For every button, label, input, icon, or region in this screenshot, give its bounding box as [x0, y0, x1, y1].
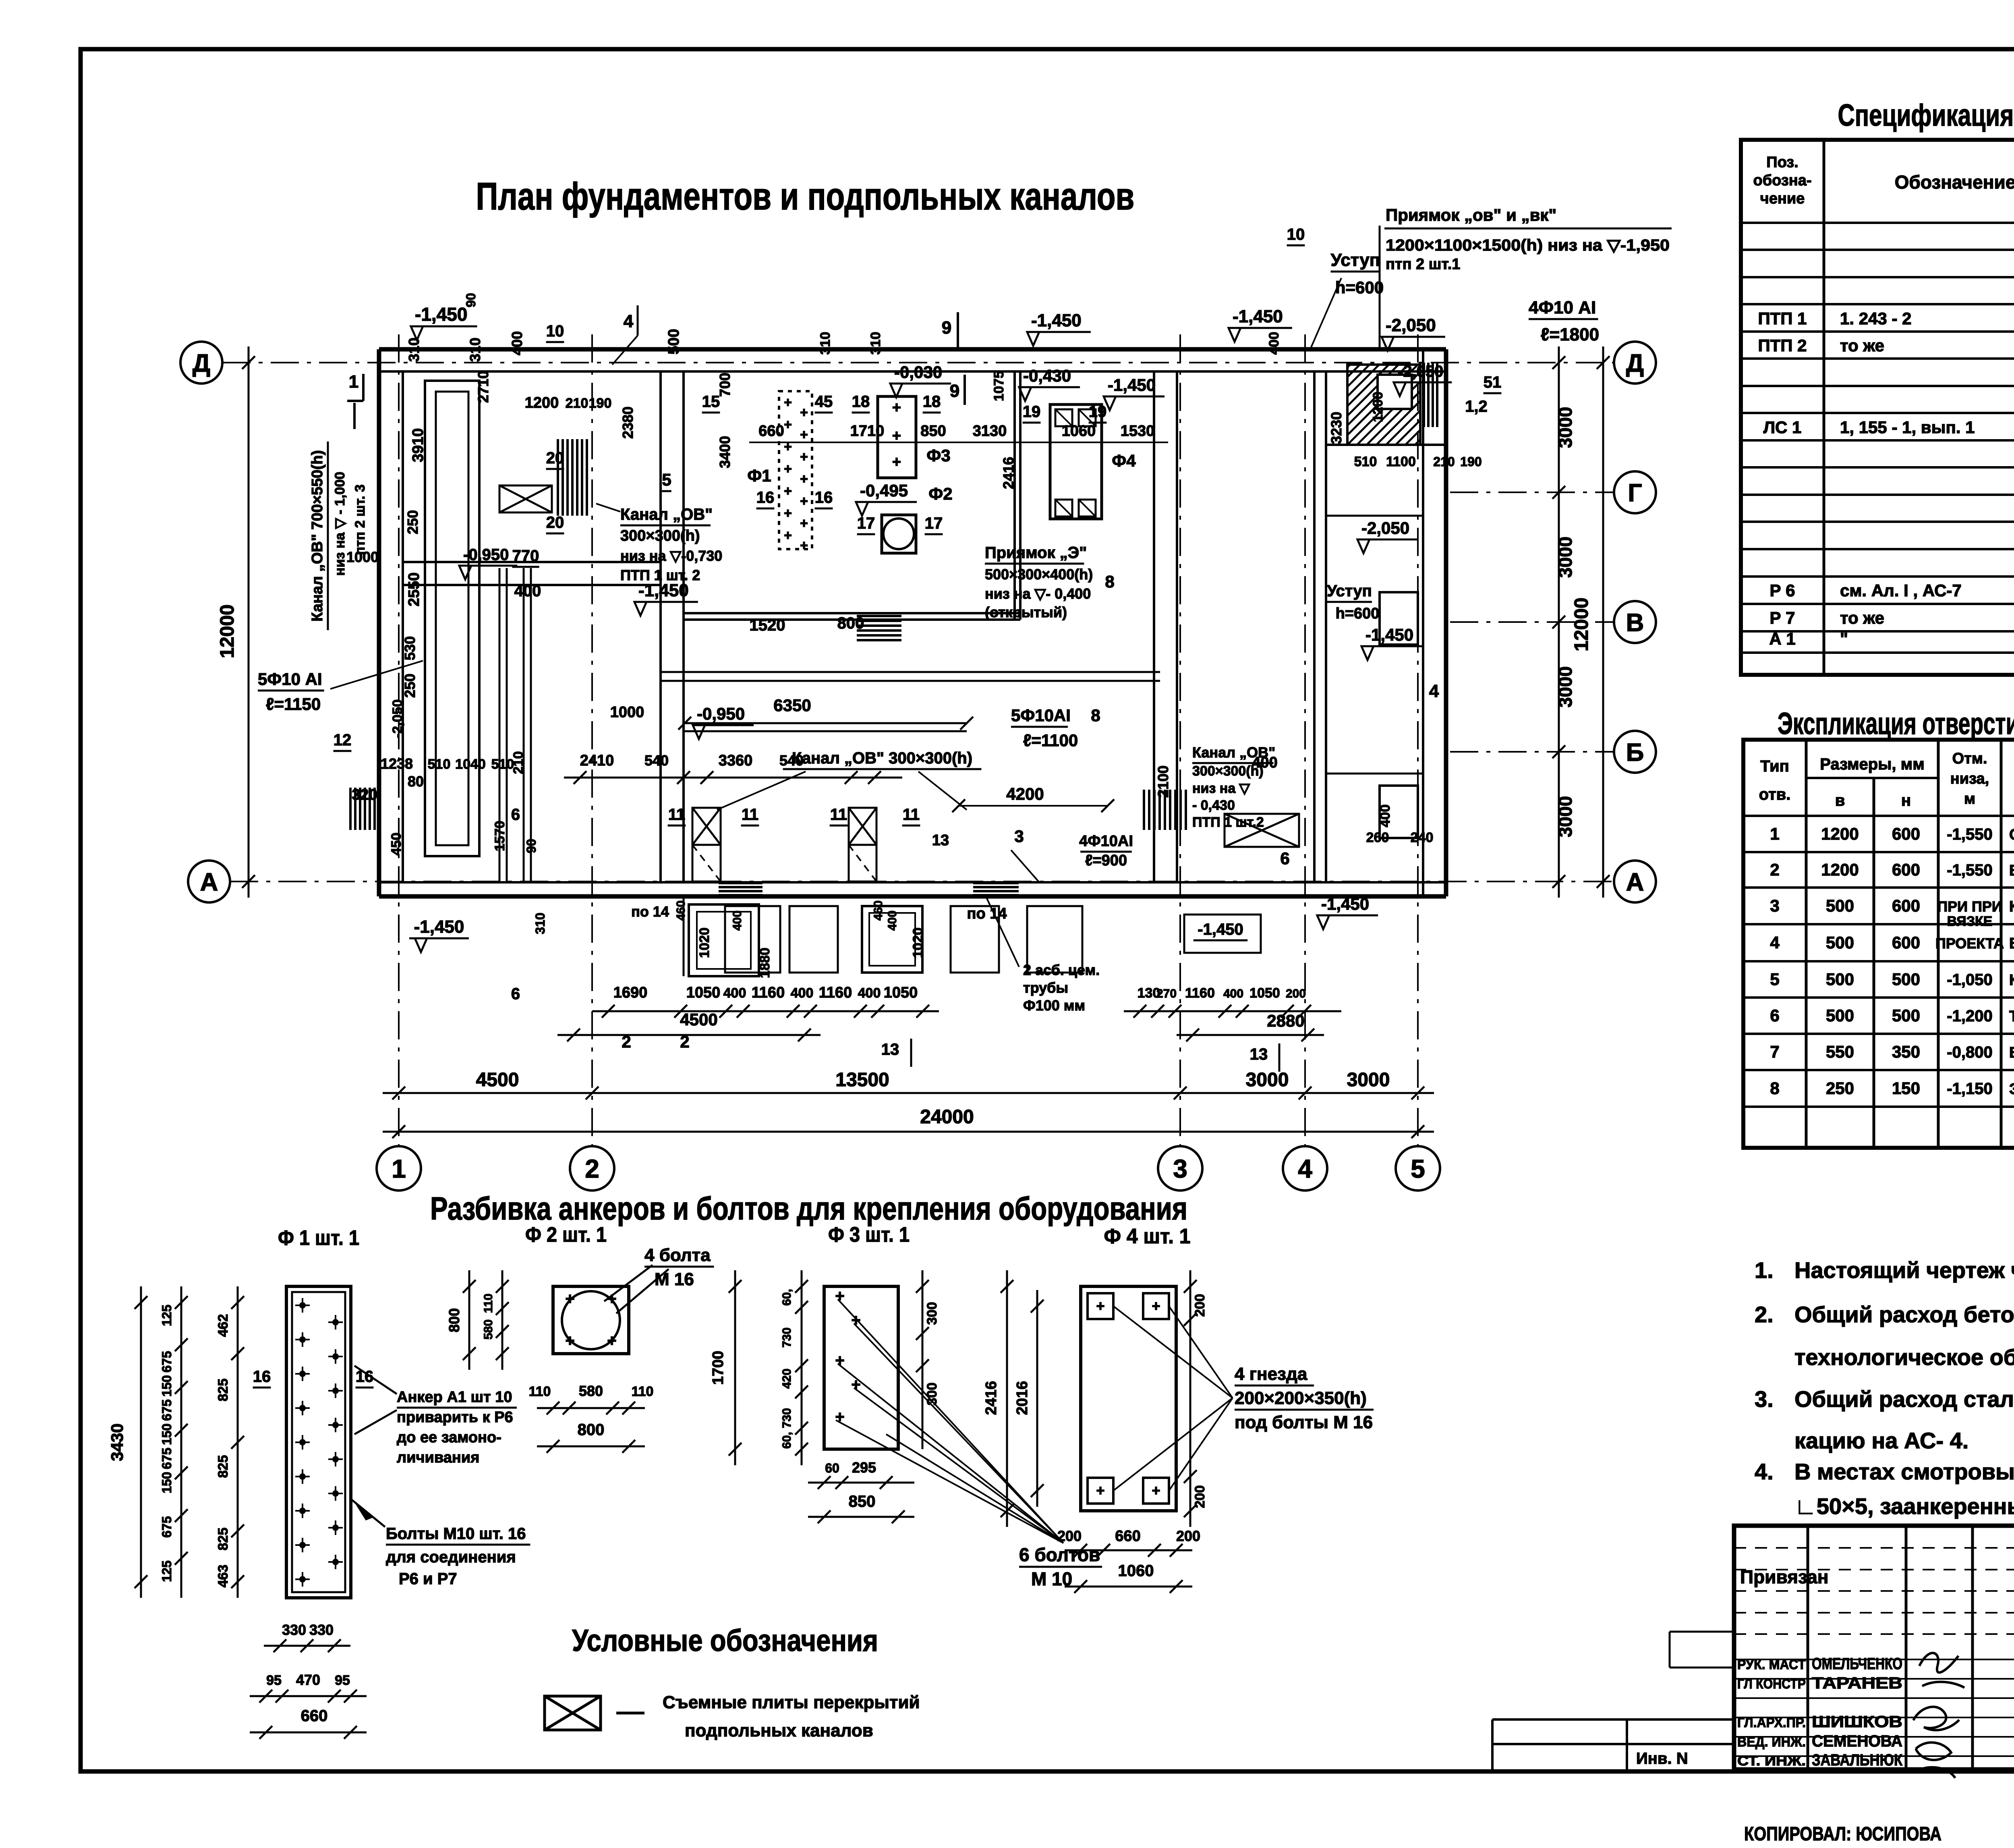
svg-text:КАНАЛИЗАЦИЯ: КАНАЛИЗАЦИЯ [2009, 898, 2014, 915]
svg-text:250: 250 [404, 510, 421, 534]
svg-text:+: + [800, 471, 808, 487]
svg-text:330: 330 [282, 1622, 306, 1638]
svg-text:2550: 2550 [406, 572, 423, 607]
svg-text:ВОДОПРОВОД /ГОР./: ВОДОПРОВОД /ГОР./ [2009, 862, 2014, 879]
svg-text:ШИШКОВ: ШИШКОВ [1812, 1713, 1902, 1731]
svg-text:400: 400 [731, 911, 744, 931]
svg-text:под болты М 16: под болты М 16 [1235, 1412, 1373, 1432]
svg-text:3430: 3430 [108, 1423, 126, 1461]
svg-text:4Ф10АI: 4Ф10АI [1079, 833, 1133, 850]
svg-text:730: 730 [780, 1408, 794, 1428]
svg-text:60: 60 [825, 1461, 839, 1475]
svg-text:125: 125 [160, 1305, 174, 1326]
svg-text:ГЛ КОНСТР: ГЛ КОНСТР [1737, 1676, 1806, 1692]
svg-text:13500: 13500 [835, 1069, 889, 1091]
svg-text:540: 540 [779, 752, 804, 769]
svg-text:+: + [607, 1332, 616, 1350]
svg-text:Приямок „Э": Приямок „Э" [985, 544, 1087, 562]
svg-text:1000: 1000 [610, 704, 644, 721]
svg-text:-0,495: -0,495 [860, 481, 908, 500]
svg-text:+: + [565, 1290, 574, 1308]
svg-text:1060: 1060 [1062, 423, 1096, 440]
svg-text:4.: 4. [1755, 1459, 1774, 1484]
svg-text:3000: 3000 [1246, 1069, 1289, 1091]
svg-text:600: 600 [1892, 896, 1920, 915]
svg-text:9: 9 [942, 318, 951, 338]
svg-text:6 болтов: 6 болтов [1019, 1544, 1100, 1565]
svg-text:4500: 4500 [476, 1069, 519, 1091]
svg-text:низ на ▽-0,730: низ на ▽-0,730 [620, 548, 722, 564]
svg-text:3000: 3000 [1555, 407, 1576, 448]
svg-text:3000: 3000 [1555, 666, 1576, 707]
svg-text:17: 17 [857, 514, 875, 532]
svg-text:Привязан: Привязан [1740, 1566, 1829, 1587]
svg-text:210: 210 [566, 396, 588, 411]
svg-text:+: + [800, 538, 808, 553]
svg-text:4: 4 [1429, 681, 1439, 701]
svg-text:250: 250 [402, 674, 418, 698]
svg-text:462: 462 [215, 1314, 231, 1337]
svg-text:2100: 2100 [1155, 765, 1171, 798]
svg-text:6: 6 [511, 806, 520, 823]
svg-text:-1,450: -1,450 [1321, 894, 1369, 913]
svg-text:310: 310 [467, 338, 483, 362]
svg-text:1050: 1050 [884, 984, 918, 1001]
svg-text:Ф2: Ф2 [928, 484, 952, 503]
svg-text:ПТП 2: ПТП 2 [1758, 336, 1807, 355]
svg-text:200: 200 [1192, 1485, 1208, 1508]
svg-text:300: 300 [924, 1383, 940, 1406]
svg-text:Ф4: Ф4 [1112, 451, 1136, 470]
svg-text:3400: 3400 [717, 436, 733, 468]
svg-text:+: + [565, 1332, 574, 1350]
svg-text:+: + [800, 449, 808, 465]
svg-text:- 0,430: - 0,430 [1192, 798, 1235, 813]
svg-text:-2,050: -2,050 [1361, 519, 1409, 537]
svg-text:20: 20 [546, 514, 564, 531]
svg-text:450: 450 [389, 833, 404, 856]
svg-text:470: 470 [296, 1672, 320, 1688]
svg-text:+: + [784, 461, 792, 477]
svg-text:400: 400 [1378, 805, 1393, 828]
svg-text:ПРОЕКТА: ПРОЕКТА [1935, 935, 2004, 952]
svg-text:Ф3: Ф3 [926, 446, 950, 465]
svg-text:1060: 1060 [1118, 1562, 1154, 1580]
svg-text:12000: 12000 [217, 604, 238, 658]
svg-text:580: 580 [482, 1319, 495, 1340]
svg-text:530: 530 [402, 636, 418, 660]
svg-text:1200: 1200 [1821, 860, 1859, 879]
svg-text:580: 580 [579, 1383, 603, 1399]
svg-text:16: 16 [253, 1368, 271, 1385]
svg-text:1. 243 - 2: 1. 243 - 2 [1840, 309, 1911, 328]
svg-text:825: 825 [215, 1528, 231, 1551]
svg-text:1160: 1160 [752, 984, 785, 1001]
svg-text:95: 95 [266, 1673, 282, 1688]
svg-text:обозна-: обозна- [1753, 172, 1811, 189]
svg-text:150: 150 [160, 1375, 174, 1396]
svg-text:Тип: Тип [1760, 757, 1789, 775]
svg-text:2: 2 [680, 1032, 689, 1051]
svg-text:М 16: М 16 [655, 1269, 694, 1289]
svg-text:ℓ=1800: ℓ=1800 [1541, 325, 1599, 344]
svg-text:3230: 3230 [1328, 412, 1345, 444]
svg-text:1.: 1. [1755, 1257, 1774, 1283]
svg-text:+: + [1096, 1298, 1104, 1314]
svg-text:ПТП 1: ПТП 1 [1758, 309, 1807, 328]
svg-text:3000: 3000 [1555, 537, 1576, 578]
svg-text:+: + [784, 417, 792, 432]
svg-text:3000: 3000 [1555, 796, 1576, 837]
svg-text:150: 150 [1892, 1079, 1920, 1098]
svg-text:ТО ЖЕ: ТО ЖЕ [2009, 1008, 2014, 1025]
svg-text:+: + [784, 483, 792, 499]
svg-text:ВЕНТИЛЯЦИЯ: ВЕНТИЛЯЦИЯ [2009, 1044, 2014, 1061]
svg-text:+: + [1152, 1482, 1160, 1499]
svg-text:800: 800 [837, 614, 864, 632]
svg-text:2: 2 [1770, 860, 1779, 879]
svg-text:Разбивка анкеров и болтов: Разбивка анкеров и болтов для крепления … [430, 1191, 1187, 1226]
svg-text:125: 125 [160, 1560, 174, 1582]
svg-text:Настоящий чертеж читать со: Настоящий чертеж читать совместно с АС-4… [1794, 1257, 2014, 1283]
svg-text:Р 6: Р 6 [1770, 581, 1795, 600]
svg-text:-1,450: -1,450 [638, 581, 689, 600]
svg-text:КОПИРОВАЛ: ЮСИПОВА: КОПИРОВАЛ: ЮСИПОВА [1744, 1823, 1941, 1845]
svg-text:3360: 3360 [719, 752, 753, 769]
svg-text:А: А [1626, 868, 1644, 896]
svg-text:240: 240 [1411, 830, 1434, 845]
svg-text:400: 400 [858, 985, 881, 1001]
svg-text:-1,450: -1,450 [1365, 625, 1413, 644]
svg-text:11: 11 [903, 806, 920, 823]
svg-text:190: 190 [589, 396, 612, 411]
svg-text:В местах смотровых люков с: В местах смотровых люков съемные плиты у… [1794, 1459, 2014, 1484]
svg-text:90: 90 [464, 293, 478, 307]
svg-text:51: 51 [1484, 373, 1502, 391]
svg-text:Канал „ОВ": Канал „ОВ" [620, 506, 713, 523]
svg-text:1050: 1050 [686, 984, 721, 1001]
svg-text:150: 150 [160, 1472, 174, 1493]
svg-text:в: в [1835, 792, 1845, 809]
svg-text:200: 200 [1057, 1528, 1082, 1544]
svg-text:2410: 2410 [580, 752, 614, 769]
svg-text:9: 9 [950, 381, 959, 401]
svg-text:660: 660 [301, 1707, 328, 1725]
svg-text:500: 500 [1892, 1006, 1920, 1025]
svg-text:ВЕД. ИНЖ.: ВЕД. ИНЖ. [1737, 1734, 1806, 1750]
svg-text:2416: 2416 [983, 1381, 1000, 1415]
svg-text:1520: 1520 [750, 616, 785, 634]
svg-text:200: 200 [1176, 1528, 1200, 1544]
svg-text:850: 850 [920, 423, 946, 440]
svg-text:1: 1 [392, 1154, 406, 1183]
svg-text:Р6 и Р7: Р6 и Р7 [399, 1570, 457, 1588]
svg-text:500: 500 [1826, 933, 1854, 952]
svg-text:Канал „ОВ" 300×300(h): Канал „ОВ" 300×300(h) [792, 749, 972, 767]
svg-text:-1,200: -1,200 [1947, 1007, 1992, 1025]
svg-text:4 болта: 4 болта [644, 1245, 711, 1265]
svg-text:420: 420 [780, 1369, 794, 1389]
svg-text:210: 210 [511, 751, 526, 774]
svg-text:600: 600 [1892, 824, 1920, 843]
svg-text:5Ф10 АI: 5Ф10 АI [258, 670, 322, 689]
svg-text:КАНАЛИЗАЦИЯ: КАНАЛИЗАЦИЯ [2009, 972, 2014, 989]
svg-text:-1,450: -1,450 [415, 304, 467, 325]
svg-text:Поз.: Поз. [1766, 154, 1798, 171]
svg-text:Ф 2 шт. 1: Ф 2 шт. 1 [525, 1223, 607, 1247]
svg-text:11: 11 [668, 806, 685, 823]
svg-text:-2,050: -2,050 [1398, 363, 1443, 380]
svg-text:1530: 1530 [1121, 423, 1155, 440]
svg-text:Р 7: Р 7 [1770, 608, 1795, 627]
svg-text:СТ. ИНЖ.: СТ. ИНЖ. [1737, 1753, 1806, 1769]
svg-text:80: 80 [408, 773, 424, 790]
svg-text:300: 300 [924, 1302, 940, 1325]
svg-text:Условные обозначения: Условные обозначения [572, 1624, 878, 1658]
svg-text:13: 13 [881, 1041, 899, 1058]
svg-text:18: 18 [852, 393, 870, 411]
svg-text:Анкер А1 шт 10: Анкер А1 шт 10 [397, 1389, 512, 1406]
svg-text:12000: 12000 [1571, 597, 1592, 651]
svg-text:4500: 4500 [680, 1010, 717, 1029]
svg-text:200: 200 [1192, 1294, 1208, 1317]
svg-text:низ на ▽ - 1,000: низ на ▽ - 1,000 [332, 472, 348, 576]
svg-text:до ее замоно-: до ее замоно- [397, 1429, 501, 1446]
svg-text:310: 310 [818, 332, 833, 355]
svg-text:1570: 1570 [492, 821, 508, 851]
svg-text:Инв. N: Инв. N [1636, 1750, 1688, 1767]
svg-text:500: 500 [1826, 970, 1854, 989]
svg-text:700: 700 [717, 373, 733, 397]
svg-text:825: 825 [215, 1455, 231, 1478]
svg-text:17: 17 [925, 514, 943, 532]
svg-text:-0,950: -0,950 [697, 704, 745, 723]
svg-text:60,: 60, [780, 1432, 794, 1449]
svg-text:В: В [1626, 609, 1644, 637]
svg-text:400: 400 [723, 985, 746, 1001]
svg-text:по 14: по 14 [631, 903, 669, 920]
svg-text:19: 19 [1089, 403, 1107, 421]
svg-text:РУК. МАСТ: РУК. МАСТ [1737, 1657, 1806, 1672]
svg-text:2880: 2880 [1267, 1011, 1304, 1030]
svg-text:СЕМЕНОВА: СЕМЕНОВА [1812, 1732, 1902, 1750]
svg-text:500: 500 [1892, 970, 1920, 989]
svg-text:5Ф10АI: 5Ф10АI [1011, 706, 1071, 725]
svg-text:+: + [835, 1352, 844, 1369]
svg-text:13: 13 [1250, 1045, 1268, 1063]
svg-text:1200×1100×1500(h) низ на ▽-1,: 1200×1100×1500(h) низ на ▽-1,950 [1386, 236, 1670, 254]
svg-text:-1,550: -1,550 [1947, 825, 1992, 843]
svg-text:1238: 1238 [381, 755, 413, 772]
svg-text:технологическое оборудование: технологическое оборудование Ф1 ÷ Ф4 — 2… [1794, 1344, 2014, 1370]
svg-text:3: 3 [1173, 1154, 1187, 1183]
svg-text:ЛС 1: ЛС 1 [1763, 418, 1802, 437]
svg-text:300×300(h): 300×300(h) [620, 527, 700, 544]
svg-text:птп 2 шт. 3: птп 2 шт. 3 [352, 484, 368, 555]
svg-text:Уступ: Уступ [1331, 250, 1380, 270]
svg-text:400: 400 [514, 582, 541, 600]
svg-text:110: 110 [632, 1384, 654, 1399]
svg-text:трубы: трубы [1023, 979, 1068, 996]
svg-text:2380: 2380 [620, 407, 636, 439]
svg-text:13: 13 [932, 832, 949, 849]
svg-text:А 1: А 1 [1769, 629, 1795, 648]
svg-text:770: 770 [512, 547, 539, 565]
svg-text:500: 500 [1826, 896, 1854, 915]
svg-text:+: + [784, 528, 792, 543]
svg-text:-0,950: -0,950 [463, 546, 509, 564]
svg-text:Экспликация отверстий: Экспликация отверстий [1778, 707, 2014, 741]
svg-text:+: + [800, 405, 808, 420]
svg-text:Общий расход стали на ли: Общий расход стали на лист см. сводную с… [1794, 1386, 2014, 1412]
svg-text:3910: 3910 [410, 428, 427, 463]
svg-text:510: 510 [1354, 454, 1377, 469]
svg-text:Спецификация здания ниже от: Спецификация здания ниже отм. 0,000 [1838, 98, 2014, 133]
svg-text:низ на ▽: низ на ▽ [1192, 781, 1250, 796]
svg-text:1200: 1200 [1821, 824, 1859, 843]
svg-text:11: 11 [830, 806, 847, 823]
svg-text:675: 675 [160, 1399, 174, 1421]
svg-text:1200: 1200 [1370, 392, 1386, 422]
svg-text:110: 110 [482, 1294, 495, 1313]
svg-text:600: 600 [1892, 933, 1920, 952]
svg-text:Приямок „ов" и „вк": Приямок „ов" и „вк" [1386, 205, 1556, 224]
svg-text:+: + [1152, 1298, 1160, 1314]
svg-text:А: А [200, 868, 218, 896]
svg-text:10: 10 [1287, 226, 1305, 243]
svg-text:2 асб. цем.: 2 асб. цем. [1023, 962, 1100, 978]
svg-text:-0,430: -0,430 [1023, 366, 1071, 385]
svg-text:": " [1840, 629, 1848, 648]
svg-text:6350: 6350 [773, 696, 811, 715]
svg-text:825: 825 [215, 1379, 231, 1402]
svg-text:800: 800 [578, 1421, 605, 1439]
svg-text:h=600: h=600 [1335, 278, 1384, 297]
svg-text:1050: 1050 [1249, 985, 1280, 1001]
svg-text:Ф 3 шт. 1: Ф 3 шт. 1 [828, 1223, 910, 1247]
svg-text:295: 295 [852, 1459, 876, 1476]
svg-text:4: 4 [624, 311, 634, 331]
svg-text:3000: 3000 [1347, 1069, 1390, 1091]
svg-text:Ф 1 шт. 1: Ф 1 шт. 1 [278, 1226, 359, 1250]
svg-text:400: 400 [1266, 332, 1282, 355]
svg-text:-0,030: -0,030 [894, 363, 942, 382]
svg-text:10: 10 [546, 322, 564, 340]
svg-text:по 14: по 14 [967, 905, 1007, 922]
svg-text:400: 400 [1252, 754, 1277, 771]
svg-text:1040: 1040 [455, 757, 486, 772]
svg-text:260: 260 [1366, 830, 1389, 845]
svg-text:2: 2 [585, 1154, 599, 1183]
svg-text:45: 45 [815, 393, 833, 411]
svg-text:850: 850 [849, 1493, 876, 1510]
svg-text:чение: чение [1760, 190, 1805, 207]
svg-text:8: 8 [1091, 706, 1100, 725]
svg-text:3130: 3130 [973, 423, 1007, 440]
svg-text:ЭЛЕКТРОСНАБЖЕНИЕ: ЭЛЕКТРОСНАБЖЕНИЕ [2009, 1081, 2014, 1098]
svg-text:-2,050: -2,050 [1386, 315, 1436, 335]
svg-text:550: 550 [1826, 1042, 1854, 1061]
svg-text:310: 310 [406, 338, 422, 362]
svg-text:310: 310 [868, 332, 883, 355]
svg-text:6: 6 [1280, 849, 1289, 868]
svg-text:1,2: 1,2 [1465, 398, 1488, 415]
svg-text:270: 270 [1156, 987, 1177, 1000]
svg-text:500: 500 [1826, 1006, 1854, 1025]
svg-text:Канал „ОВ" 700×550(h): Канал „ОВ" 700×550(h) [309, 450, 326, 622]
svg-text:4: 4 [1770, 933, 1780, 952]
svg-text:460: 460 [674, 900, 688, 921]
svg-text:+: + [892, 454, 901, 471]
svg-text:(открытый): (открытый) [985, 604, 1067, 620]
svg-text:660: 660 [1115, 1528, 1140, 1545]
svg-text:4Ф10 АI: 4Ф10 АI [1529, 298, 1596, 317]
svg-text:16: 16 [756, 489, 775, 506]
svg-text:+: + [784, 439, 792, 454]
svg-text:м: м [1964, 790, 1975, 807]
svg-text:-1,550: -1,550 [1947, 861, 1992, 879]
svg-text:ПРИ ПРИ: ПРИ ПРИ [1937, 898, 2002, 915]
svg-text:+: + [800, 516, 808, 531]
svg-text:330: 330 [309, 1622, 334, 1638]
svg-text:∟50×5, заанкеренные в кирпич: ∟50×5, заанкеренные в кирпичную кладку Ф… [1794, 1493, 2014, 1519]
svg-text:3: 3 [1014, 827, 1024, 846]
svg-text:7: 7 [1770, 1042, 1779, 1061]
svg-text:250: 250 [1826, 1079, 1854, 1098]
svg-text:кацию на АС- 4.: кацию на АС- 4. [1794, 1428, 1968, 1453]
svg-text:+: + [1096, 1482, 1104, 1499]
svg-text:730: 730 [780, 1327, 794, 1348]
svg-text:1200: 1200 [525, 394, 559, 411]
svg-text:Ф100 мм: Ф100 мм [1023, 997, 1085, 1014]
svg-text:1: 1 [1770, 824, 1779, 843]
svg-text:3.: 3. [1755, 1386, 1774, 1412]
svg-text:Общий расход бетона марки: Общий расход бетона марки М 200 на фунда… [1794, 1302, 2014, 1327]
svg-text:600: 600 [1892, 860, 1920, 879]
svg-text:675: 675 [160, 1351, 174, 1372]
svg-text:8: 8 [1105, 572, 1114, 591]
svg-text:500: 500 [665, 329, 682, 354]
svg-text:540: 540 [644, 752, 669, 769]
svg-text:-1,450: -1,450 [1108, 375, 1156, 394]
svg-text:320: 320 [352, 786, 377, 803]
svg-text:подпольных каналов: подпольных каналов [685, 1721, 873, 1740]
svg-text:675: 675 [160, 1516, 174, 1537]
svg-text:+: + [800, 494, 808, 509]
svg-text:План фундаментов и подпо: План фундаментов и подпольных каналов [476, 175, 1135, 218]
svg-text:низ на ▽- 0,400: низ на ▽- 0,400 [985, 585, 1091, 602]
svg-text:11: 11 [742, 806, 758, 823]
svg-text:90: 90 [524, 839, 539, 853]
svg-text:то же: то же [1840, 336, 1884, 355]
svg-text:ОМЕЛЬЧЕНКО: ОМЕЛЬЧЕНКО [1812, 1655, 1902, 1673]
svg-text:675: 675 [160, 1448, 174, 1469]
svg-text:Болты М10 шт. 16: Болты М10 шт. 16 [386, 1525, 526, 1543]
svg-text:2: 2 [622, 1032, 631, 1051]
svg-text:ГЛ.АРХ.ПР.: ГЛ.АРХ.ПР. [1737, 1715, 1806, 1730]
svg-text:5: 5 [662, 470, 671, 489]
svg-text:2016: 2016 [1014, 1381, 1031, 1415]
svg-text:н: н [1901, 792, 1911, 809]
svg-text:см. Ал. I , АС-7: см. Ал. I , АС-7 [1840, 581, 1962, 600]
svg-text:190: 190 [1460, 454, 1481, 469]
svg-text:12: 12 [334, 731, 352, 749]
svg-text:6: 6 [511, 985, 520, 1003]
svg-text:2416: 2416 [1000, 457, 1017, 489]
svg-text:ВЯЗКЕ: ВЯЗКЕ [1947, 914, 1993, 929]
svg-text:+: + [784, 506, 792, 521]
svg-text:ВОДОПРОВОД: ВОДОПРОВОД [2009, 935, 2014, 952]
